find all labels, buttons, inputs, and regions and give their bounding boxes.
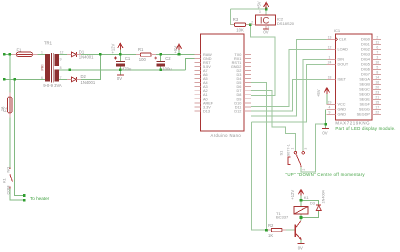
- svg-text:14: 14: [375, 76, 379, 80]
- wire DQ down and over: [250, 25, 275, 96]
- svg-text:IC1: IC1: [334, 28, 341, 33]
- net wires: [4, 50, 194, 201]
- wire T1 emitter to 0V: [300, 239, 302, 243]
- svg-text:12: 12: [328, 46, 332, 50]
- svg-text:1N4001: 1N4001: [81, 80, 96, 85]
- svg-text:SEGC: SEGC: [359, 88, 370, 92]
- node center tap: [69, 69, 72, 72]
- wire branch N down to heater stub: [15, 79, 25, 195]
- resistor R3: [235, 23, 246, 26]
- node C2 bottom: [159, 69, 162, 72]
- svg-text:11: 11: [376, 41, 380, 45]
- svg-text:R2: R2: [268, 223, 274, 228]
- svg-text:1: 1: [267, 25, 269, 29]
- svg-text:DIG3: DIG3: [361, 53, 370, 57]
- node C1 bottom: [119, 69, 122, 72]
- svg-text:DIG6: DIG6: [361, 68, 370, 72]
- +5V supply arrow (rail): [176, 44, 181, 50]
- svg-text:1: 1: [291, 148, 295, 150]
- wire C2 bottom lead: [160, 66, 162, 69]
- node heater top: [23, 194, 26, 197]
- +12V supply arrow: [118, 43, 123, 49]
- svg-text:19: 19: [328, 101, 332, 105]
- svg-text:9: 9: [60, 57, 62, 61]
- svg-text:15: 15: [375, 101, 379, 105]
- wire mains L row: [4, 53, 16, 55]
- svg-text:1A: 1A: [0, 106, 4, 111]
- svg-text:0V: 0V: [263, 29, 268, 34]
- svg-text:5: 5: [376, 66, 378, 70]
- right pin stubs: [244, 54, 251, 110]
- svg-text:7: 7: [60, 76, 62, 80]
- switch S1: [278, 144, 308, 170]
- wire LOAD net: [251, 49, 326, 106]
- node heater bottom: [23, 199, 26, 202]
- svg-text:SEGF: SEGF: [360, 103, 371, 107]
- left pin names: [203, 53, 214, 114]
- wire relay drive vertical to R2 node: [251, 122, 266, 230]
- svg-text:17: 17: [375, 106, 379, 110]
- svg-text:DIG2: DIG2: [361, 48, 370, 52]
- wire CLK net: [251, 39, 326, 116]
- wire TR1 sec bottom to D2: [59, 78, 70, 80]
- resistor R2: [271, 228, 282, 231]
- wire C1 bottom lead: [119, 66, 121, 69]
- svg-text:C2: C2: [165, 56, 171, 61]
- svg-text:1: 1: [329, 56, 331, 60]
- wire ISET net: [251, 79, 326, 111]
- svg-text:18: 18: [328, 76, 332, 80]
- wire R2 left lead: [267, 229, 272, 231]
- svg-text:1: 1: [41, 51, 43, 55]
- node MAX gnd: [324, 123, 327, 126]
- relay coil K1: [294, 206, 308, 214]
- svg-text:2: 2: [251, 20, 253, 24]
- svg-text:9-0-9 3VA: 9-0-9 3VA: [43, 83, 62, 88]
- node C1 top: [119, 53, 122, 56]
- wire S1 common down right and up to gnd node: [301, 124, 326, 172]
- svg-text:COM: COM: [6, 186, 10, 195]
- +12V arrow above coil: [298, 190, 303, 196]
- wire +12V stem to coil: [300, 195, 302, 206]
- wire C2 top lead: [160, 54, 162, 61]
- svg-text:S1: S1: [278, 150, 283, 156]
- node fuse branch: [9, 53, 12, 56]
- pole bracket: [288, 157, 291, 165]
- svg-text:+12V: +12V: [290, 190, 295, 200]
- wire +5V arrow stem: [178, 50, 180, 54]
- svg-text:SEGA: SEGA: [359, 78, 370, 82]
- svg-text:21: 21: [375, 96, 379, 100]
- svg-text:20: 20: [375, 86, 379, 90]
- node mains L terminal: [3, 53, 6, 56]
- svg-text:22: 22: [375, 111, 379, 115]
- throw contacts: [294, 152, 296, 154]
- capacitor C2: [155, 57, 166, 67]
- svg-text:DIG7: DIG7: [361, 73, 370, 77]
- svg-text:Part of LED display module.: Part of LED display module.: [335, 126, 395, 131]
- relay contact K1: [10, 168, 13, 189]
- svg-text:470u: 470u: [122, 66, 132, 71]
- diode D2: [71, 77, 76, 82]
- wire DIN net to S1 right: [303, 59, 326, 151]
- svg-text:1K: 1K: [268, 233, 273, 238]
- wire D2 cathode up to rail: [77, 54, 100, 79]
- IC2 DS18S20: [250, 10, 294, 34]
- node mains N terminal: [3, 78, 6, 81]
- svg-text:D13: D13: [203, 109, 210, 113]
- svg-text:3: 3: [304, 148, 308, 150]
- svg-text:F1: F1: [17, 47, 23, 52]
- wire IC2 VDD stem: [265, 9, 267, 15]
- fuse F2: [8, 97, 13, 113]
- right pin names: [357, 38, 371, 117]
- svg-text:R3: R3: [233, 17, 239, 22]
- wire center tap 0V rail: [59, 69, 186, 71]
- svg-text:ISET: ISET: [338, 78, 347, 82]
- svg-text:16: 16: [375, 81, 379, 85]
- ground 0V under C1: [117, 74, 124, 76]
- node DQ: [249, 23, 252, 26]
- svg-text:C1: C1: [125, 56, 131, 61]
- wire C1 to 0V symbol: [119, 70, 121, 75]
- wire contact COM to heater stub: [10, 189, 25, 201]
- node R2 left: [265, 229, 268, 232]
- wire +12V arrow stem: [119, 50, 121, 55]
- svg-text:GND: GND: [338, 108, 347, 112]
- svg-text:D2: D2: [81, 74, 87, 79]
- svg-text:0V: 0V: [298, 245, 303, 250]
- right pin numbers: [375, 36, 379, 115]
- ground 0V under MAX: [322, 128, 329, 130]
- svg-text:LOAD: LOAD: [338, 48, 349, 52]
- left pin names: [338, 38, 349, 117]
- svg-text:GND: GND: [338, 113, 347, 117]
- lever: [296, 154, 301, 165]
- svg-text:DIN: DIN: [338, 58, 345, 62]
- wire DOUT net: [251, 64, 326, 122]
- transistor T1 BC337: [295, 221, 301, 240]
- svg-text:6: 6: [41, 76, 43, 80]
- wire TR1 sec top to D1: [59, 53, 70, 55]
- wire rail C1 to R1: [120, 53, 140, 55]
- fuse F1: [17, 52, 33, 57]
- svg-text:7: 7: [376, 51, 378, 55]
- wire mains N row: [4, 78, 44, 80]
- svg-text:CLK: CLK: [339, 38, 347, 42]
- diode D3: [316, 205, 321, 211]
- svg-text:10K: 10K: [236, 28, 244, 33]
- svg-text:2: 2: [302, 169, 306, 171]
- wire R3 left to +5V rail above: [231, 9, 235, 25]
- IC3 Arduino Nano: [194, 34, 250, 138]
- right stubs: [372, 39, 381, 114]
- wire coil bottom to D3 bottom: [301, 211, 319, 217]
- svg-text:9077-1: 9077-1: [286, 144, 290, 156]
- svg-text:DS18S20: DS18S20: [277, 21, 295, 26]
- right pin names: [231, 53, 242, 114]
- svg-text:1N4001: 1N4001: [79, 55, 94, 60]
- svg-text:DIG5: DIG5: [361, 63, 370, 67]
- svg-text:D3: D3: [310, 201, 315, 205]
- capacitor C1: [114, 57, 125, 67]
- svg-text:DIG1: DIG1: [361, 43, 370, 47]
- +5V arrow at MAX VCC: [324, 88, 329, 94]
- clock wedge: [335, 37, 337, 41]
- svg-text:BC337: BC337: [276, 215, 289, 220]
- node N branch: [13, 78, 16, 81]
- svg-text:12: 12: [60, 51, 64, 55]
- svg-text:SEGE: SEGE: [359, 98, 370, 102]
- wire R1 to C2 to +5V to RAW: [151, 53, 194, 55]
- svg-text:3: 3: [376, 56, 378, 60]
- svg-text:4: 4: [329, 106, 331, 110]
- wire C1 top lead: [119, 54, 121, 61]
- left pin stubs: [194, 54, 200, 110]
- svg-text:+5V: +5V: [316, 89, 321, 97]
- wire MAX vcc +5V stem: [326, 94, 328, 104]
- svg-text:SEGDP: SEGDP: [357, 113, 371, 117]
- svg-text:VCC: VCC: [338, 103, 346, 107]
- node +5V IC2: [265, 8, 268, 11]
- wire coil to T1 collector: [300, 218, 302, 221]
- wire F1 to TR1: [33, 53, 45, 55]
- svg-text:R1: R1: [138, 47, 144, 52]
- svg-text:8: 8: [60, 66, 62, 70]
- svg-text:100: 100: [139, 57, 147, 62]
- node +5V tap: [178, 53, 181, 56]
- wire 0V rail up to arduino GND pin: [186, 58, 195, 69]
- svg-text:Arduino Nano: Arduino Nano: [211, 133, 242, 138]
- svg-text:K1: K1: [1, 177, 6, 183]
- ground 0V under T1: [298, 242, 305, 244]
- +5V arrow above IC2: [264, 2, 269, 9]
- svg-text:1N4004: 1N4004: [322, 190, 326, 203]
- svg-text:24: 24: [328, 61, 332, 65]
- wire MAX gnd pins chain down: [325, 109, 327, 128]
- svg-text:SEGD: SEGD: [359, 93, 370, 97]
- node C2 top: [159, 53, 162, 56]
- wire S1 left staircase from D7: [251, 91, 296, 152]
- wire +5V top rail to IC2 VDD: [231, 8, 267, 10]
- node coil top: [300, 199, 303, 202]
- svg-text:0V: 0V: [117, 76, 122, 81]
- svg-text:K1: K1: [304, 195, 310, 200]
- svg-text:DOUT: DOUT: [338, 63, 349, 67]
- left stubs: [326, 39, 335, 114]
- svg-text:"UP" "DOWN" Centre off momenta: "UP" "DOWN" Centre off momentary: [286, 172, 366, 177]
- svg-text:To heater: To heater: [30, 196, 50, 201]
- svg-text:DIG0: DIG0: [361, 38, 370, 42]
- wire R3 right to DQ node: [246, 24, 251, 26]
- svg-text:SEGB: SEGB: [359, 83, 370, 87]
- svg-text:MAX7219KNG: MAX7219KNG: [335, 120, 370, 125]
- svg-text:8: 8: [376, 71, 378, 75]
- svg-text:3: 3: [259, 10, 261, 14]
- svg-text:23: 23: [375, 91, 379, 95]
- svg-text:SEGG: SEGG: [359, 108, 370, 112]
- transformer TR1: [40, 40, 63, 88]
- left pin numbers: [328, 36, 332, 115]
- svg-text:+5V: +5V: [173, 46, 178, 54]
- node coil bottom: [300, 216, 303, 219]
- svg-text:0V: 0V: [322, 130, 327, 135]
- svg-text:DIG4: DIG4: [361, 58, 370, 62]
- IC1 MAX7219KNG: [326, 28, 395, 131]
- svg-text:+12V: +12V: [111, 43, 116, 53]
- diode D1: [71, 52, 76, 57]
- wire D5 pin to R2: [251, 83, 267, 231]
- node rectifier out: [99, 53, 102, 56]
- svg-text:100u: 100u: [162, 66, 172, 71]
- svg-text:D12: D12: [234, 109, 241, 113]
- svg-text:TR1: TR1: [44, 40, 53, 45]
- svg-text:9: 9: [329, 111, 331, 115]
- svg-text:10: 10: [375, 61, 379, 65]
- svg-text:6: 6: [376, 46, 378, 50]
- wire branch L down through F2 to contact: [9, 54, 11, 97]
- svg-text:2: 2: [376, 36, 378, 40]
- svg-text:PRI: PRI: [40, 65, 44, 71]
- svg-text:13: 13: [328, 36, 332, 40]
- resistor R1: [141, 53, 152, 56]
- svg-text:NO: NO: [6, 167, 10, 173]
- wire coil top to D3: [301, 200, 319, 204]
- svg-text:+5V: +5V: [256, 1, 261, 9]
- wire R2 right to T1 base: [282, 229, 295, 231]
- wire D1 cathode to rail: [77, 53, 120, 55]
